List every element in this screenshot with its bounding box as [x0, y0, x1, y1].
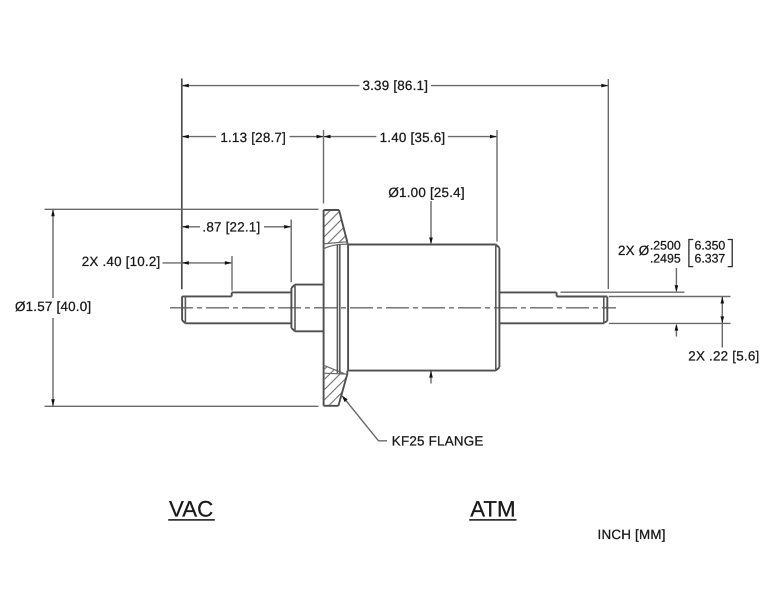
dimension 1.40 [35.6]	[324, 136, 498, 138]
left shaft chamfer edge	[184, 296, 186, 323]
extension line right (shaft end, atm)	[607, 79, 609, 289]
flange bottom section boundary lines	[324, 365, 348, 374]
body cylinder Ø1.00	[348, 245, 499, 371]
svg-text:.2495: .2495	[650, 251, 681, 265]
svg-text:1.40 [35.6]: 1.40 [35.6]	[380, 130, 446, 145]
svg-text:2X .22 [5.6]: 2X .22 [5.6]	[688, 349, 759, 364]
dimension 2X .40 [10.2]	[163, 262, 232, 264]
centerline	[170, 307, 616, 309]
extension line collar left face	[290, 220, 292, 283]
extension line shaft top (full dia)	[561, 291, 685, 293]
left shaft (VAC side)	[182, 292, 291, 323]
svg-text:INCH [MM]: INCH [MM]	[598, 527, 666, 542]
KF25 flange top hatched section	[324, 210, 348, 244]
extension line flat end step	[231, 256, 233, 291]
extension line flange face	[323, 130, 325, 204]
dimension 2X .22 [5.6]	[609, 297, 731, 348]
extension line body right face	[496, 130, 498, 242]
dimension 1.13 [28.7]	[182, 136, 324, 138]
svg-text:Ø1.57 [40.0]: Ø1.57 [40.0]	[15, 299, 91, 314]
collar chamfer edge	[294, 285, 296, 332]
svg-text:6.337: 6.337	[695, 251, 726, 265]
svg-text:2X .40 [10.2]: 2X .40 [10.2]	[82, 254, 161, 269]
right shaft chamfer edge	[603, 297, 605, 323]
svg-text:1.13 [28.7]: 1.13 [28.7]	[220, 130, 286, 145]
extension line left (shaft end)	[181, 79, 183, 290]
dimension .87 [22.1]	[182, 226, 291, 228]
KF25 FLANGE label with leader	[344, 398, 388, 441]
flange top section boundary curves	[324, 242, 348, 249]
svg-text:2X Ø: 2X Ø	[618, 243, 649, 258]
collar (left boss)	[291, 285, 323, 332]
svg-text:.2500: .2500	[650, 238, 681, 252]
flange bore lines	[336, 245, 338, 373]
body right chamfer edge	[495, 245, 497, 371]
KF25 flange bottom hatched section	[324, 366, 348, 406]
svg-text:Ø1.00 [25.4]: Ø1.00 [25.4]	[388, 185, 464, 200]
svg-text:6.350: 6.350	[695, 238, 726, 252]
dimension 3.39 [86.1]	[182, 85, 609, 87]
svg-text:KF25 FLANGE: KF25 FLANGE	[392, 434, 484, 449]
right shaft (ATM side)	[499, 292, 607, 323]
svg-text:3.39 [86.1]: 3.39 [86.1]	[362, 78, 428, 93]
svg-text:.87 [22.1]: .87 [22.1]	[202, 219, 260, 234]
svg-text:VAC: VAC	[169, 496, 213, 521]
svg-text:ATM: ATM	[470, 496, 515, 521]
